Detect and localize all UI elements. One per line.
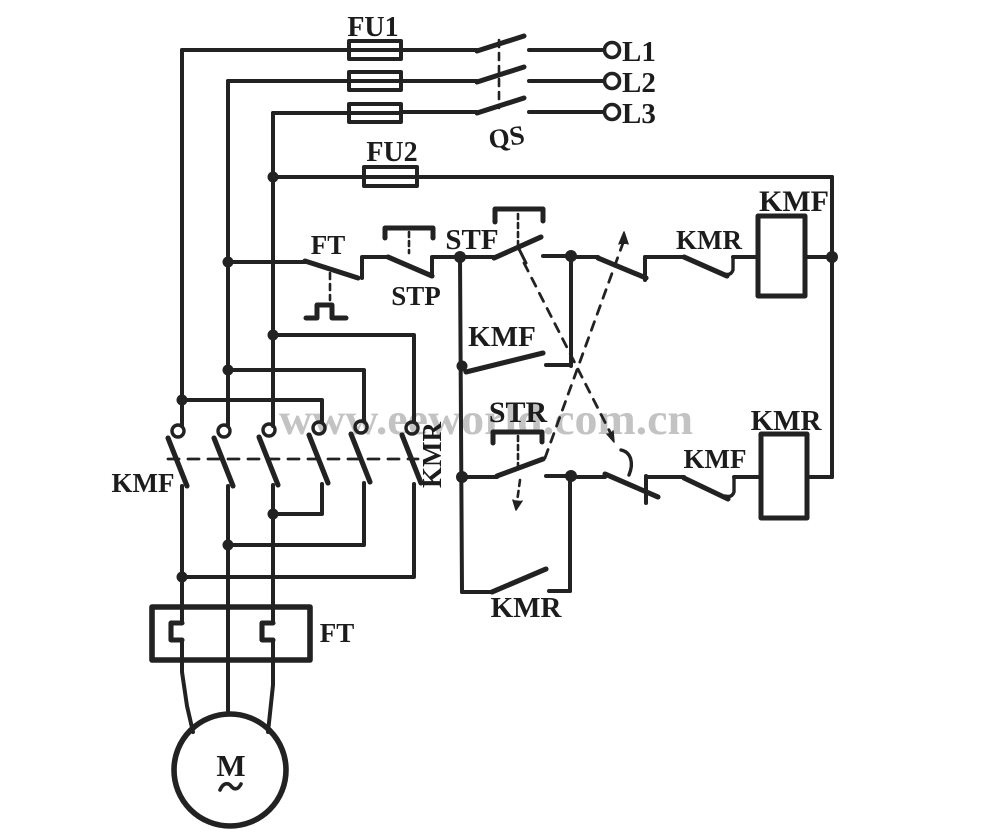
svg-text:FT: FT — [320, 618, 355, 648]
svg-text:KMR: KMR — [751, 405, 823, 437]
wire STF left lead — [460, 255, 494, 259]
thermal relay FT box — [152, 607, 310, 660]
terminal L2 circle — [605, 74, 620, 89]
svg-text:KMF: KMF — [684, 444, 747, 474]
node KMR pole1 output junction — [268, 509, 279, 520]
wire KMR aux right lead — [549, 589, 570, 593]
wire rung1 NC to KMR contact — [645, 255, 684, 259]
node rung2 right junction — [565, 470, 577, 482]
wire phase2 vertical — [226, 81, 230, 426]
coil KMR — [761, 434, 807, 518]
svg-text:KMR: KMR — [417, 422, 447, 488]
svg-text:L2: L2 — [622, 67, 656, 99]
wire vertical x571 STF-node to KMF aux — [569, 256, 573, 366]
interlock STF arrowhead — [607, 431, 614, 442]
contact STF-linked NC blade (rung2) — [605, 474, 658, 497]
fuse FU2 — [364, 167, 417, 186]
svg-text:KMR: KMR — [491, 592, 563, 624]
wire KMR aux vertical up to rung2 — [568, 477, 572, 591]
wire KMR aux rung bottom — [462, 590, 492, 594]
wire KMR pole1 output — [273, 484, 322, 514]
thermal relay FT heater 2 — [262, 623, 273, 640]
contact KMF NC seat hook — [725, 477, 734, 497]
wire to KMF coil — [733, 255, 758, 259]
wire QS to L2 — [529, 79, 603, 83]
wire FU2 left lead — [273, 175, 364, 179]
node rung2 left junction — [456, 471, 468, 483]
wire rung2 NC to KMF contact — [646, 475, 684, 479]
button STR stem dashed with arrow below — [517, 480, 520, 502]
wire rung2 node to NC contact — [571, 475, 605, 479]
wire phase3 lower vertical — [271, 485, 275, 623]
button STP dashed stem — [408, 232, 411, 253]
node KMF coil rail junction — [826, 251, 838, 263]
label motor AC tilde — [220, 784, 241, 790]
wire STF right lead — [543, 254, 571, 258]
button STF stem tick below blade — [519, 249, 526, 263]
contactor KMF pole2 terminal — [218, 425, 230, 437]
switch QS blade 1 — [477, 36, 524, 51]
contact STF-linked NC seat hook — [621, 450, 631, 475]
contact STR-linked NC post — [643, 257, 647, 280]
contactor linkage dashed — [168, 458, 418, 461]
terminal L3 circle — [605, 105, 620, 120]
button STR blade (NO) — [497, 459, 543, 476]
thermal relay FT heater 1 — [171, 623, 182, 640]
button STR stem arrowhead — [513, 500, 522, 510]
wire KMR pole1 feed — [182, 400, 322, 421]
contact KMR NC seat hook — [724, 257, 733, 275]
switch QS linkage dashed — [498, 40, 501, 108]
wire QS to L3 — [529, 110, 603, 114]
wire phase3 top horizontal — [273, 112, 477, 113]
contact FT (NC thermal relay contact) blade — [305, 261, 358, 278]
button STF blade (NO) — [494, 237, 541, 258]
node control rung1 tap on phase2 — [223, 257, 234, 268]
coil KMF — [758, 216, 805, 296]
wire motor lead 1 — [182, 640, 193, 732]
wire to KMR coil — [734, 475, 761, 479]
node KMR pole3 feed tap on phase3 — [268, 330, 279, 341]
contactor KMR pole3 blade — [402, 435, 421, 483]
wire QS to L1 — [529, 48, 603, 52]
svg-text:KMR: KMR — [676, 225, 742, 255]
node STF right junction — [565, 250, 577, 262]
wire rung2 lead-in — [462, 475, 497, 479]
wire KMR pole2 feed — [228, 370, 364, 421]
contact KMF auxiliary (NO self-hold) blade — [466, 353, 543, 372]
svg-text:QS: QS — [486, 119, 526, 154]
contactor KMR pole1 blade — [309, 435, 328, 483]
motor M circle — [174, 714, 286, 826]
svg-text:www.eeworld.com.cn: www.eeworld.com.cn — [279, 395, 693, 444]
wire motor lead 3 — [268, 640, 273, 732]
wire phase1 top horizontal — [182, 48, 477, 52]
node KMR pole2 output junction — [223, 540, 234, 551]
contact KMR NC blade (rung1) — [684, 257, 727, 276]
wire rung1 node to NC contact — [571, 255, 598, 259]
node KMR pole2 feed tap on phase2 — [223, 365, 234, 376]
contact STR-linked NC blade (rung1) — [598, 258, 646, 278]
svg-text:KMF: KMF — [112, 468, 175, 498]
svg-text:M: M — [216, 748, 245, 783]
button STP blade (NC) — [388, 257, 432, 276]
svg-text:L3: L3 — [622, 98, 656, 130]
wire KMR coil to rail — [807, 475, 832, 479]
node KMF aux tap — [457, 361, 468, 372]
wire KMF aux right lead — [546, 363, 571, 367]
button STP head — [385, 228, 433, 238]
button STF head — [495, 209, 543, 222]
node KMR pole3 output junction — [177, 572, 188, 583]
wire FU2 to right rail — [417, 175, 832, 179]
contactor KMF pole3 terminal — [263, 424, 275, 436]
contact FT fixed post — [360, 258, 364, 278]
svg-text:STF: STF — [445, 224, 498, 256]
wire phase2 lower vertical — [226, 486, 230, 713]
node KMR pole1 feed tap on phase1 — [177, 395, 188, 406]
svg-text:FT: FT — [311, 230, 346, 260]
button STP fixed post — [430, 258, 434, 276]
contact KMF NC blade (rung2) — [684, 478, 728, 499]
wire phase1 lower vertical — [180, 486, 184, 623]
button STR dashed stem — [517, 436, 520, 470]
svg-text:FU2: FU2 — [366, 137, 417, 168]
wire KMR pole3 output — [182, 484, 414, 577]
wire phase1 vertical — [180, 50, 184, 426]
node STF left junction — [454, 251, 466, 263]
svg-text:L1: L1 — [622, 36, 656, 68]
fuse FU1 element 1 — [349, 41, 401, 59]
svg-text:KMF: KMF — [759, 185, 829, 218]
fuse FU1 element 3 — [349, 104, 401, 122]
wire rung1 FT to STP — [362, 255, 388, 259]
contactor KMF pole1 terminal — [172, 425, 184, 437]
interlock dashed STR to rung1 NC — [545, 243, 623, 458]
wire KMF coil to rail — [805, 255, 832, 259]
fuse FU1 element 2 — [349, 72, 401, 90]
svg-text:FU1: FU1 — [347, 12, 398, 43]
contactor KMR pole1 terminal — [313, 422, 325, 434]
button STF dashed stem — [517, 214, 520, 245]
contactor KMF pole1 blade — [168, 438, 187, 486]
wire phase2 top horizontal — [228, 79, 477, 83]
svg-text:KMF: KMF — [468, 321, 536, 353]
wire rung1 lead-in — [228, 260, 305, 264]
contactor KMR pole2 blade — [351, 434, 370, 482]
node FU2 tap on phase3 — [268, 172, 279, 183]
contact STF-linked NC post — [644, 476, 648, 503]
wire STR right lead — [546, 474, 571, 478]
switch QS blade 2 — [477, 67, 524, 82]
wire rung1 STP to STF node — [432, 255, 460, 259]
wire vertical x462 down from STF left node — [460, 257, 462, 592]
contact KMR auxiliary (NO self-hold) blade — [492, 569, 546, 592]
contactor KMF pole3 blade — [259, 437, 278, 485]
switch QS blade 3 — [477, 98, 524, 113]
interlock STR arrowhead — [619, 232, 628, 244]
contact FT dashed stem — [329, 273, 332, 300]
wire KMR pole2 output — [228, 483, 364, 545]
terminal L1 circle — [605, 43, 620, 58]
interlock dashed STF to rung2 NC — [524, 263, 612, 436]
wire right rail vertical — [830, 177, 834, 477]
wire phase3 vertical — [271, 113, 275, 426]
contactor KMR pole3 terminal — [406, 422, 418, 434]
contactor KMF pole2 blade — [214, 438, 233, 486]
contact FT trip symbol (square pulse) — [306, 305, 346, 318]
contactor KMR pole2 terminal — [355, 421, 367, 433]
svg-text:STP: STP — [391, 281, 441, 311]
wire KMR pole3 feed — [273, 335, 414, 421]
button STR head — [493, 432, 542, 443]
svg-text:STR: STR — [489, 396, 548, 429]
